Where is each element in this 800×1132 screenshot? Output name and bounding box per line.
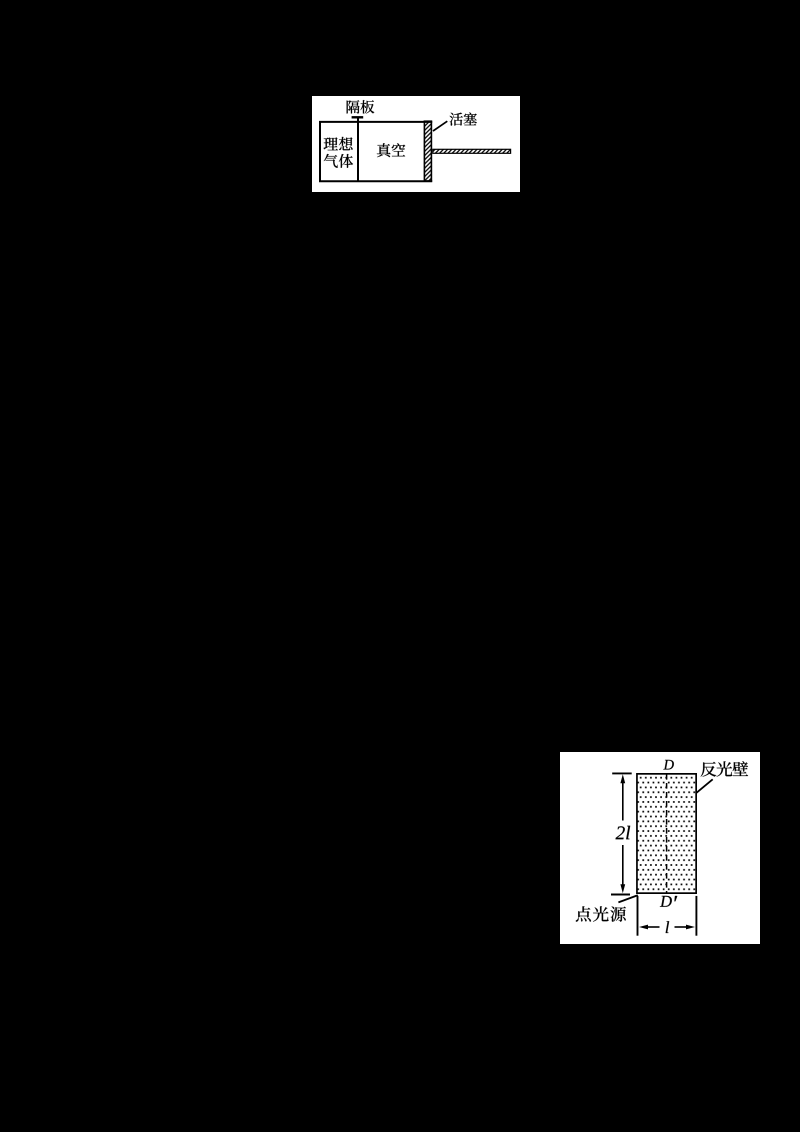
label 点光源 (point light source)	[576, 906, 626, 921]
label 反光壁 (reflective wall)	[701, 761, 748, 776]
l dimension double arrow	[639, 925, 695, 930]
label D-prime glyph (prime)	[674, 896, 677, 901]
label D glyph	[663, 760, 674, 770]
top extension tick of 2l dimension	[612, 772, 632, 774]
label 隔板 (partition)	[347, 100, 375, 113]
piston rod (hatched)	[433, 149, 511, 153]
pointer line from 活塞 label to piston	[433, 121, 447, 131]
label D-prime glyph (D)	[660, 896, 672, 907]
label 真空 (vacuum)	[377, 143, 405, 157]
figure 1: gas cylinder with partition and piston (white panel)	[312, 96, 520, 192]
bottom extension tick of 2l dimension	[611, 894, 630, 896]
container (gas cylinder) outline	[319, 121, 432, 181]
label l glyph	[666, 921, 669, 933]
piston 活塞 hatched bar	[424, 121, 431, 181]
right extension line of l dimension	[695, 896, 697, 936]
dashed centerline D-D'	[666, 774, 668, 893]
label 理想 (ideal, line 1)	[324, 137, 353, 150]
2l dimension line with arrowheads	[620, 774, 625, 893]
left extension line of l dimension	[637, 896, 639, 936]
label 活塞 (piston)	[450, 112, 477, 125]
pointer line from 点光源 label to bottom-left corner	[618, 895, 637, 902]
figure 2: point light source and reflective wall (white panel)	[560, 752, 760, 944]
label 2l glyph	[616, 826, 631, 839]
pointer line from 反光壁 label to wall	[696, 779, 713, 793]
reflective wall region (stippled rectangle)	[637, 774, 696, 893]
partition 隔板 vertical line with T-handle	[352, 117, 364, 180]
label 气体 (gas, line 2)	[324, 154, 353, 168]
